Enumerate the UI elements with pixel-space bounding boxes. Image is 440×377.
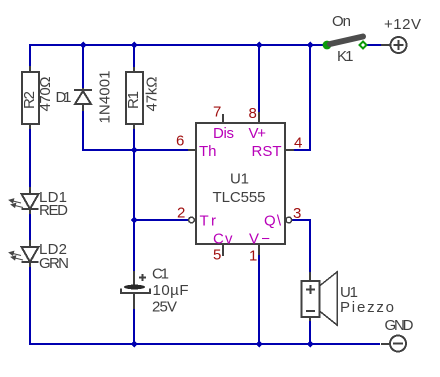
- svg-text:D1: D1: [56, 89, 72, 106]
- svg-text:470Ω: 470Ω: [37, 77, 54, 112]
- svg-text:4: 4: [294, 135, 302, 152]
- svg-text:RST: RST: [252, 143, 282, 160]
- svg-text:Q\: Q\: [264, 213, 282, 230]
- svg-text:GND: GND: [385, 317, 414, 334]
- svg-text:On: On: [332, 13, 351, 30]
- svg-text:Th: Th: [199, 143, 217, 160]
- svg-text:47kΩ: 47kΩ: [144, 77, 161, 112]
- svg-text:Piezzo: Piezzo: [340, 299, 394, 316]
- svg-text:C1: C1: [152, 266, 169, 283]
- svg-text:Cv: Cv: [213, 231, 233, 248]
- svg-text:5: 5: [213, 247, 221, 264]
- svg-text:+12V: +12V: [384, 16, 421, 33]
- svg-text:GRN: GRN: [39, 255, 69, 272]
- svg-text:R2: R2: [21, 91, 38, 109]
- svg-text:K1: K1: [337, 48, 354, 65]
- svg-text:10µF: 10µF: [153, 282, 189, 299]
- svg-text:U1: U1: [230, 171, 249, 188]
- svg-text:TLC555: TLC555: [213, 189, 266, 206]
- svg-text:7: 7: [213, 104, 221, 121]
- svg-text:RED: RED: [39, 202, 68, 219]
- svg-text:1N4001: 1N4001: [97, 71, 114, 124]
- svg-text:8: 8: [249, 105, 257, 122]
- svg-text:Dis: Dis: [213, 125, 234, 142]
- svg-text:25V: 25V: [152, 299, 177, 316]
- svg-text:1: 1: [249, 248, 257, 265]
- svg-text:3: 3: [293, 205, 301, 222]
- svg-text:R1: R1: [125, 91, 142, 109]
- svg-text:V+: V+: [249, 125, 267, 142]
- svg-text:Tr: Tr: [200, 213, 217, 230]
- svg-text:2: 2: [177, 205, 185, 222]
- svg-text:6: 6: [176, 133, 184, 150]
